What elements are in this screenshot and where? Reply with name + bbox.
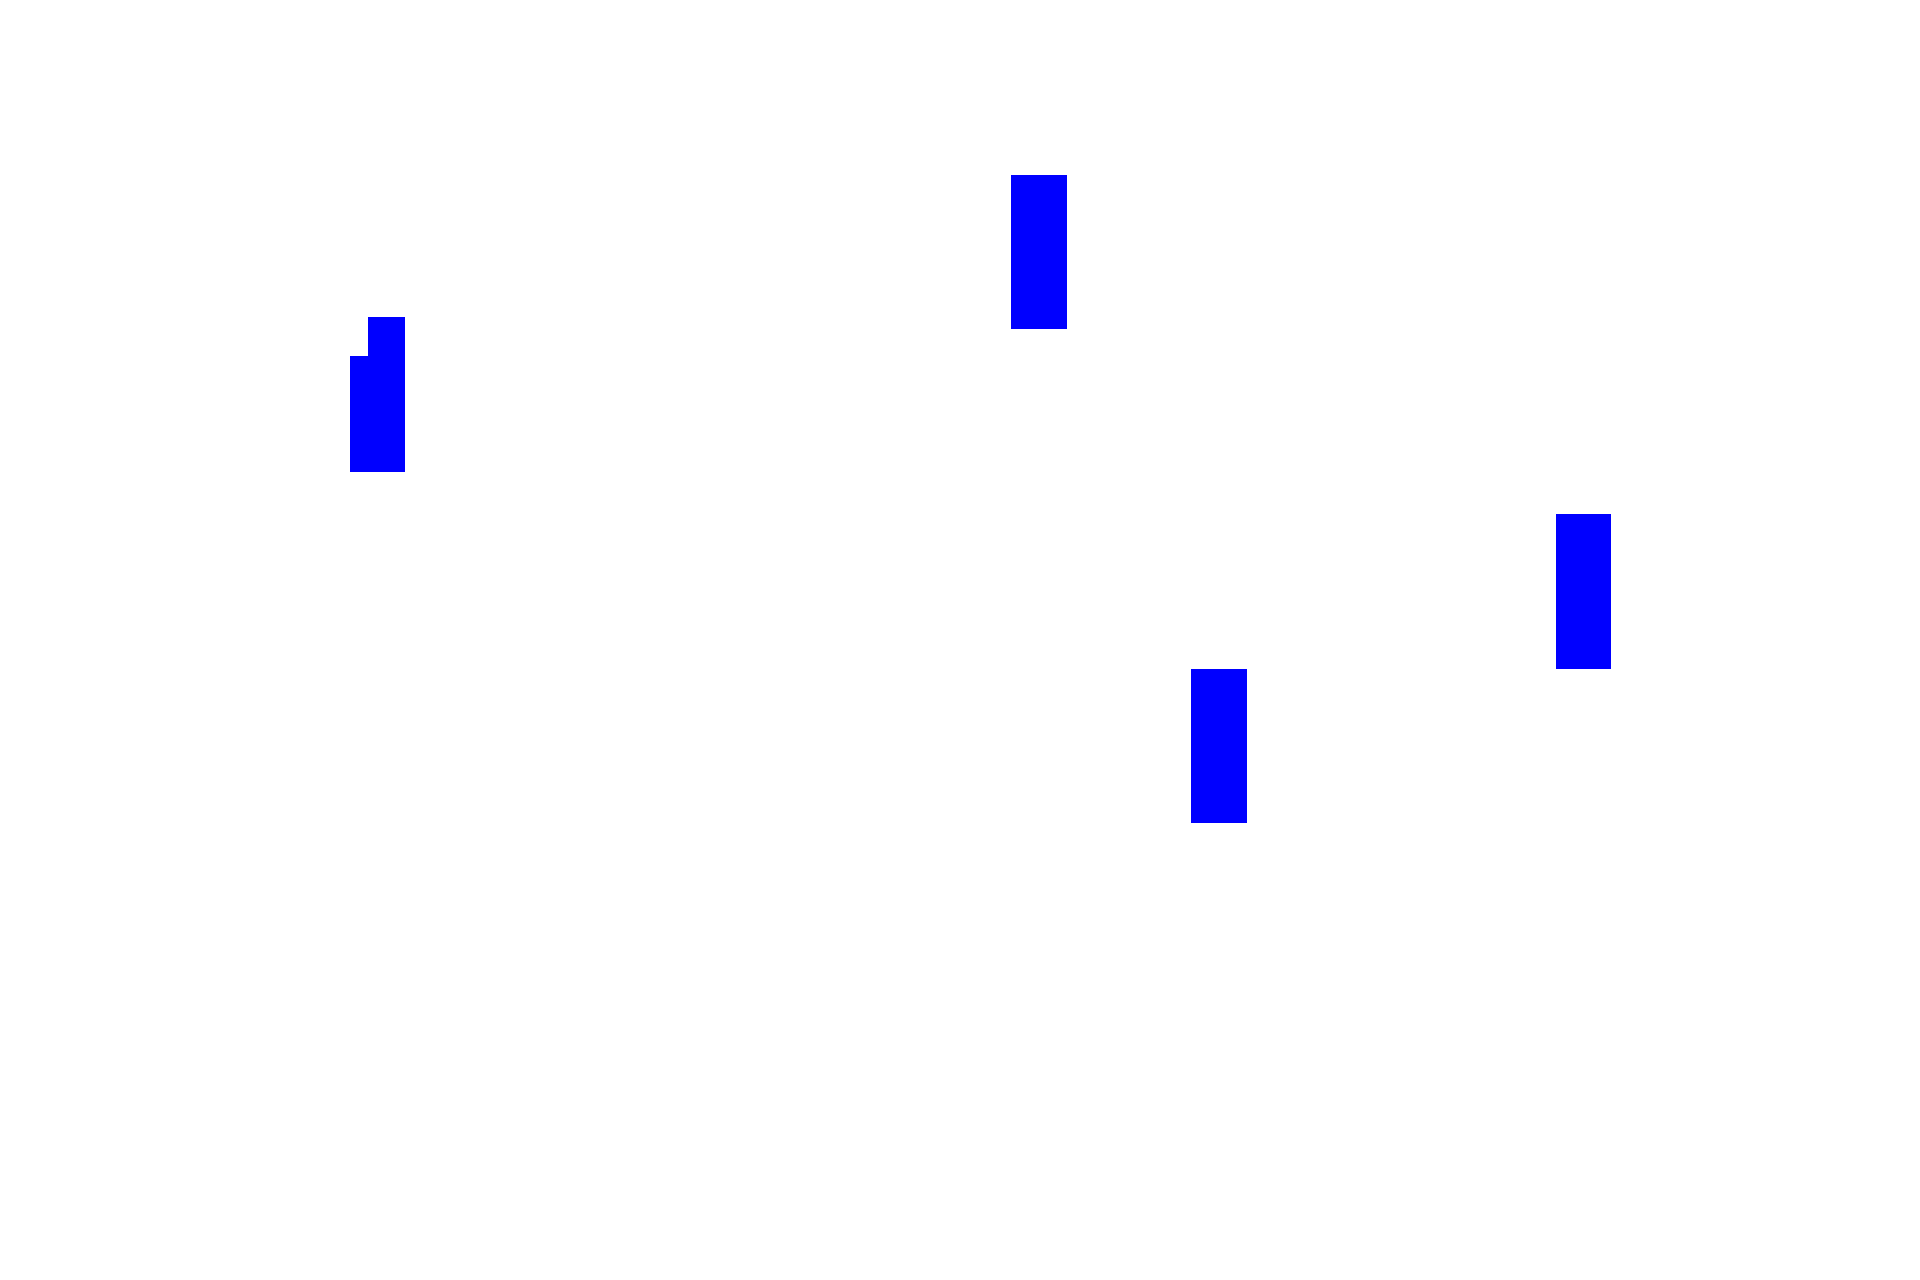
bar 4 bbox=[1556, 514, 1611, 669]
bar 2 bbox=[1011, 175, 1067, 329]
bar 1a (tall narrow segment of left cluster) bbox=[368, 317, 405, 472]
bar 3 bbox=[1191, 669, 1247, 823]
bar 1b (wide lower segment of left cluster) bbox=[350, 356, 405, 472]
